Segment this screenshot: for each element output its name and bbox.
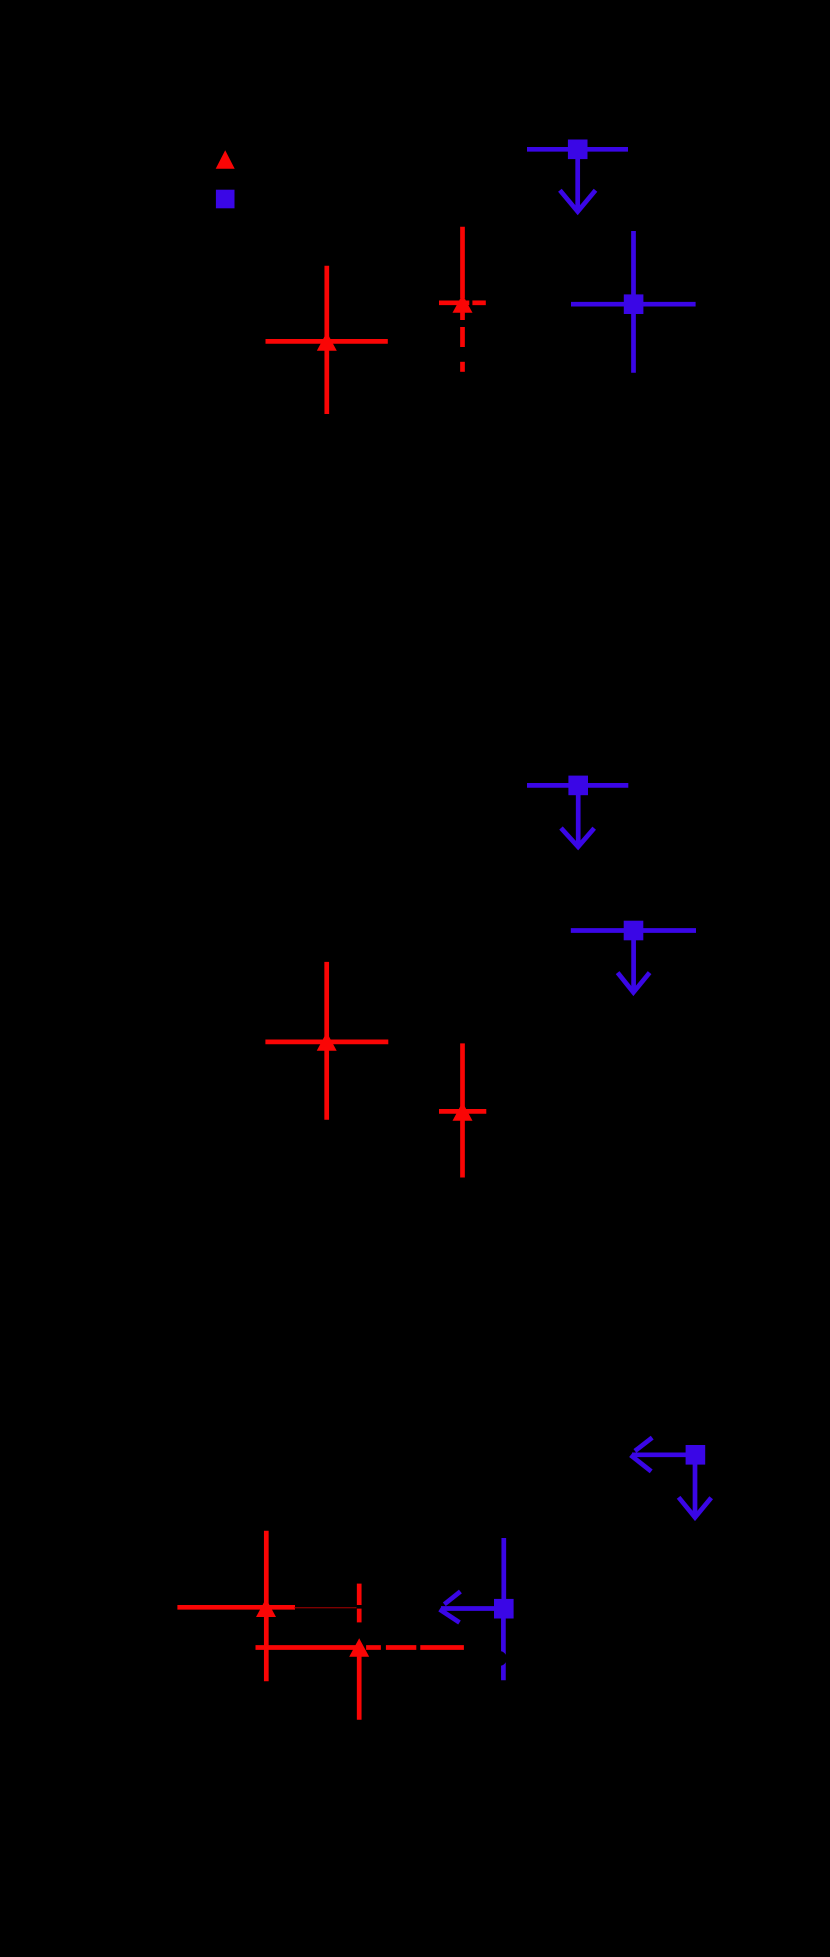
blue point B1b: x error bar bbox=[571, 302, 696, 307]
red point R1b: triangle marker bbox=[453, 294, 473, 312]
blue left-limit point B3b: upper y error bar bbox=[501, 1538, 506, 1604]
blue double-limit point B3a: down arrow shaft bbox=[693, 1460, 698, 1516]
blue upper-limit point B2b: down arrow shaft bbox=[631, 936, 636, 990]
legend marker: red triangle bbox=[216, 150, 235, 169]
blue double-limit point B3a: left arrow head bbox=[631, 1438, 653, 1472]
red point R3b: x error bar solid left part bbox=[256, 1645, 362, 1650]
red point R3a: x error bar bbox=[177, 1605, 295, 1610]
blue point B1b: y error bar bbox=[631, 231, 636, 373]
thin faint red connector line bbox=[295, 1607, 357, 1609]
blue upper-limit point B1a: square marker bbox=[568, 140, 588, 160]
red point R3b: triangle marker bbox=[349, 1638, 369, 1656]
red point R1a: x error bar bbox=[266, 339, 388, 344]
blue upper-limit point B2b: square marker bbox=[624, 921, 644, 941]
black occluding marker over B3b lower bar bbox=[492, 1651, 507, 1666]
blue double-limit point B3a: square marker bbox=[686, 1445, 706, 1465]
blue upper-limit point B2b: horizontal error bar bbox=[571, 928, 696, 933]
blue left-limit point B3b: square marker bbox=[494, 1599, 514, 1619]
red point R3a: triangle marker bbox=[256, 1599, 276, 1617]
red point R2b: x error bar bbox=[439, 1109, 486, 1114]
red point R2a: x error bar bbox=[265, 1040, 388, 1045]
red point R1a: y error bar bbox=[324, 266, 329, 414]
blue upper-limit point B1a: down arrow head bbox=[560, 190, 596, 211]
red point R3b: upper y error bar dashed bbox=[357, 1584, 362, 1623]
blue upper-limit point B2a: square marker bbox=[568, 776, 588, 796]
blue upper-limit point B2a: down arrow shaft bbox=[576, 791, 581, 845]
red point R2b: triangle marker bbox=[453, 1102, 473, 1120]
red point R3a: y error bar bbox=[264, 1531, 269, 1681]
blue point B1b: square marker bbox=[624, 294, 644, 314]
red point R1b: upper y error bar bbox=[460, 227, 465, 298]
blue double-limit point B3a: left arrow shaft bbox=[632, 1452, 690, 1457]
red point R2b: y error bar bbox=[460, 1043, 465, 1177]
red point R3b: lower y error bar bbox=[357, 1655, 362, 1720]
blue upper-limit point B1a: horizontal error bar bbox=[527, 147, 628, 152]
blue upper-limit point B2a: horizontal error bar bbox=[527, 783, 628, 788]
red point R3b: x error bar dashed right part bbox=[366, 1645, 464, 1650]
blue left-limit point B3b: left arrow head bbox=[440, 1592, 461, 1623]
blue upper-limit point B2b: down arrow head bbox=[618, 973, 650, 993]
blue left-limit point B3b: left arrow shaft bbox=[441, 1606, 498, 1611]
red point R2a: triangle marker bbox=[317, 1032, 337, 1050]
legend marker: blue square bbox=[216, 190, 235, 209]
red point R1b: lower y error bar dashed bbox=[460, 312, 465, 372]
blue upper-limit point B1a: down arrow shaft bbox=[575, 155, 580, 210]
red point R1b: x error bar (broken) bbox=[439, 300, 486, 305]
red point R1a: triangle marker bbox=[317, 332, 337, 350]
blue left-limit point B3b: lower y error bar bbox=[501, 1613, 506, 1680]
red point R2a: y error bar bbox=[324, 962, 329, 1120]
blue double-limit point B3a: down arrow head bbox=[679, 1497, 712, 1517]
blue upper-limit point B2a: down arrow head bbox=[561, 828, 594, 847]
